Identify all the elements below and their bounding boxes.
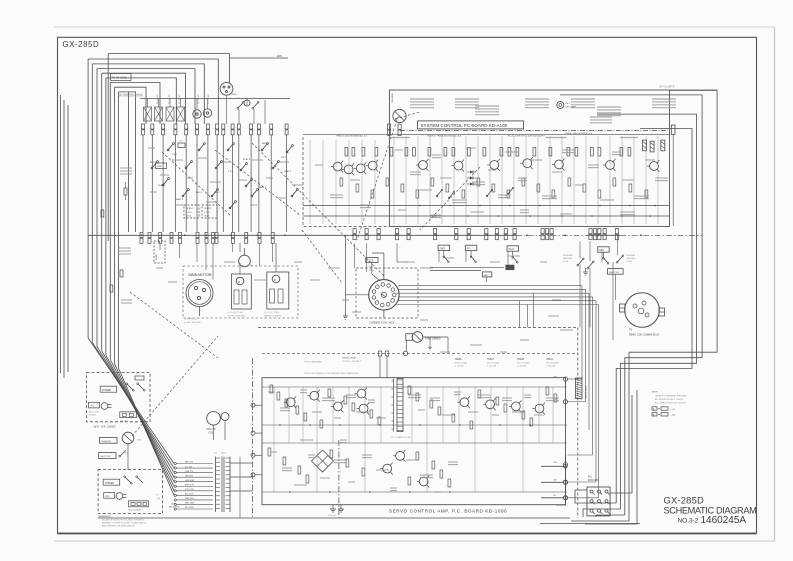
switch board S61 (436, 189, 443, 197)
label matrix value (172, 159, 183, 161)
svg-text:SHUT OFF: SHUT OFF (609, 272, 620, 274)
wire J3 lead (397, 304, 599, 306)
wire board pin drop c (397, 243, 408, 262)
resistor board lower R47 (598, 190, 601, 198)
connector pin pair top (257, 124, 260, 135)
wire board vertical (597, 136, 599, 224)
label signal conditions (475, 106, 499, 115)
label component value (562, 150, 575, 153)
transistor TR601 (342, 163, 355, 175)
label motor leads (184, 319, 201, 325)
svg-text:TAKEUP LPM 2850: TAKEUP LPM 2850 (264, 314, 282, 317)
svg-text:2-12.5: 2-12.5 (186, 212, 193, 214)
wire bus B (88, 59, 218, 124)
connector pin pair (485, 229, 488, 240)
oil damper unit 2 (267, 272, 289, 309)
label servo value (418, 409, 425, 411)
switch SW6b (251, 98, 259, 109)
wire matrix-left vertical (374, 140, 376, 224)
resistor board lower R48 (613, 178, 616, 186)
wire mech drop 7 (259, 243, 261, 266)
wire board vertical (453, 136, 455, 224)
svg-text:TR606, GIE-2SC945(K) 4-5: TR606, GIE-2SC945(K) 4-5 (565, 133, 593, 135)
svg-text:RED 12V: RED 12V (185, 462, 194, 464)
system control board left dash boundary (303, 137, 389, 226)
label P400 (369, 267, 374, 272)
connector pin pair (513, 229, 516, 240)
capacitor CN16 (239, 248, 254, 267)
wire board vertical (465, 136, 467, 224)
switch lever PLAY (512, 251, 518, 263)
wire servo vertical (426, 387, 428, 492)
svg-text:POLE: POLE (563, 261, 569, 263)
junction dot servo (279, 424, 281, 426)
svg-text:PLUNGER: PLUNGER (169, 94, 171, 104)
wire stop drop (372, 262, 380, 281)
solenoid plunger 1 (144, 107, 152, 121)
resistor servo R201 (277, 392, 280, 400)
connector P11 body (587, 487, 610, 516)
connector pad servo left (251, 473, 262, 477)
svg-text:TR604: TR604 (546, 359, 554, 361)
ground tape speed (428, 344, 432, 350)
label switch REV-2 (214, 192, 221, 194)
wire servo vertical (458, 387, 460, 443)
label component value (575, 184, 583, 186)
dashed link tension (132, 336, 218, 436)
label servo value (334, 460, 347, 463)
connector pin pair (365, 229, 368, 240)
junction dot bus (395, 234, 397, 236)
wire board vertical (525, 136, 527, 224)
wire left edge 1 (60, 95, 62, 373)
resistor board lower R34 (401, 184, 404, 192)
label servo value (308, 455, 315, 458)
junction dot bus (141, 234, 143, 236)
wire sensing to servo 3 (605, 262, 613, 352)
connector pin pair (396, 229, 399, 240)
system control board outline (389, 90, 669, 226)
switch S12 (261, 143, 268, 151)
wire left edge 3 (67, 105, 69, 372)
label AC 1 (89, 402, 100, 408)
svg-text:REV-2: REV-2 (214, 192, 221, 194)
label matrix value (280, 161, 289, 163)
oil damper unit 1 (232, 274, 252, 309)
label matrix value (160, 174, 169, 176)
label volt selector (169, 504, 180, 509)
transistor TR203 (355, 388, 368, 400)
label component value (620, 212, 635, 215)
switch tape speed (406, 332, 423, 343)
resistor board R6 (405, 148, 408, 157)
svg-text:TENSION: TENSION (101, 441, 111, 443)
connector pin pair top (216, 124, 219, 135)
label servo value (282, 468, 292, 471)
svg-text:or 2SC568: or 2SC568 (487, 365, 496, 368)
wire tension drop (124, 444, 128, 470)
wire switch row link 1 (430, 267, 504, 270)
label left bus values (120, 168, 132, 174)
resistor board lower R40 (492, 184, 495, 192)
svg-text:PLUNGER: PLUNGER (146, 94, 148, 104)
junction dot bus (206, 234, 208, 236)
wire matrix vertical (258, 135, 260, 232)
label matrix value (224, 161, 231, 163)
wire board vertical (585, 136, 587, 224)
drawing title GX-285D top left (63, 40, 100, 49)
label component value (612, 152, 621, 155)
resistor servo R208 (352, 403, 355, 411)
title model GX-285D (664, 494, 705, 505)
connector pad servo left (251, 431, 262, 435)
svg-text:REV-3: REV-3 (262, 143, 269, 145)
connector pad servo left (251, 453, 262, 457)
junction dot board (629, 205, 631, 207)
resistor servo R202 (285, 399, 288, 407)
switch sensing 1 (577, 258, 584, 266)
label servo value (434, 491, 441, 493)
wire J3 bundle drop (598, 305, 600, 498)
label servo value (546, 398, 559, 401)
svg-text:GRY 80V: GRY 80V (185, 475, 194, 477)
label TR605 group (427, 135, 462, 138)
connector P11 pins (590, 490, 610, 514)
label servo value (442, 414, 455, 416)
connector pad tape speed (403, 340, 407, 355)
resistor board R2 (352, 148, 355, 157)
junction dot board (449, 205, 451, 207)
label left bus values 3 (121, 300, 132, 303)
resistor servo lower R300 (268, 448, 271, 456)
switch board S62 (448, 191, 455, 199)
resistor servo R221 (530, 418, 533, 426)
wire J3 lead (398, 288, 586, 290)
resistor board R17 (549, 148, 552, 157)
servo board top pins (379, 351, 389, 378)
stop switch box (366, 257, 378, 262)
label bus extra 3 (620, 137, 638, 139)
svg-text:VLT 72V: VLT 72V (185, 466, 193, 468)
label component value (530, 159, 542, 161)
switch board S63 (486, 189, 493, 197)
label fuse 1.2A (156, 495, 161, 500)
label pickup coil (207, 429, 217, 435)
svg-text:2-12.5: 2-12.5 (204, 212, 211, 214)
junction dot board2 (621, 215, 623, 217)
note symbol 2 (652, 413, 675, 417)
diode D603 (467, 182, 476, 185)
resistor servo R213 (430, 400, 433, 408)
svg-text:50/60Hz: 50/60Hz (89, 414, 96, 416)
label bus extra 2 (545, 137, 567, 139)
system control board banner (418, 121, 524, 129)
connector pin pair top (270, 124, 273, 135)
dashed link 7 (420, 167, 480, 230)
dashed link 3 (130, 292, 218, 358)
label switch T.S.2 (228, 171, 234, 173)
label RL-20 group (508, 136, 545, 138)
wire damper drops (240, 243, 276, 274)
connector P3 dummy plug (620, 293, 665, 328)
resistor servo R219 (504, 404, 507, 412)
wire servo vertical (411, 387, 413, 443)
transistor tension sensor (392, 93, 406, 123)
wire tap GRN 100V (174, 480, 213, 483)
connector pin pair (353, 229, 356, 240)
connector pin pair second (245, 233, 248, 244)
svg-text:M: M (274, 278, 276, 282)
resistor servo lower R307 (408, 477, 411, 485)
servo board title (389, 509, 507, 514)
resistor servo R222 (546, 387, 549, 395)
connector pin pair (455, 229, 458, 240)
wire bundle stub to board (568, 401, 586, 403)
wire matrix vertical (185, 135, 187, 232)
resistor board R20 (591, 148, 594, 157)
label plunger vertical (208, 94, 210, 104)
dashed link 2 (302, 230, 342, 283)
svg-text:100V: 100V (277, 55, 283, 58)
label signal conditions (652, 99, 676, 108)
wire tap GRY 80V (174, 475, 213, 478)
label AC 2 (104, 493, 115, 499)
capacitor left bus (124, 182, 127, 200)
wire matrix vertical (162, 135, 164, 232)
resistor servo lower R301 (283, 457, 286, 465)
resistor servo R223 (554, 394, 557, 402)
wire tap RED 12V (174, 462, 213, 465)
wire plunger header drops (148, 95, 248, 124)
svg-text:SW19: SW19 (369, 270, 374, 272)
svg-text:PLAY: PLAY (509, 248, 515, 251)
wire board vertical (405, 136, 407, 224)
wire bus I extra drop (128, 92, 130, 232)
connector pin pair (546, 229, 549, 240)
junction dot servo (529, 424, 531, 426)
switch S6 (198, 143, 205, 151)
wire matrix vertical (216, 135, 218, 232)
label component value (466, 147, 476, 149)
connector pad servo right 24V (554, 462, 568, 467)
svg-text:VOLT: VOLT (171, 504, 177, 506)
svg-text:REV: REV (599, 250, 604, 252)
junction dot bus (564, 234, 566, 236)
switch S4 (182, 189, 189, 197)
wire J3 lead (399, 296, 593, 298)
svg-text:TR601 & 604-2SC945(K)(L) 1-1: TR601 & 604-2SC945(K)(L) 1-1 (336, 136, 368, 138)
resistor hatched pair 1 (643, 140, 647, 151)
label P3 (629, 329, 659, 336)
label matrix value (198, 157, 207, 159)
svg-text:PLUNGER: PLUNGER (179, 94, 181, 104)
label DRY ALUMITE (659, 85, 675, 88)
svg-text:HHT-2: HHT-2 (221, 453, 228, 455)
label FWD box small (156, 163, 167, 169)
label damper 1 (228, 312, 246, 317)
label PC board KD-1097 (392, 436, 413, 439)
wire P11 feed 4 (575, 490, 616, 503)
wire bus H left drop (114, 87, 116, 364)
wire bus F (106, 78, 176, 124)
resistor hatched pair 3 (661, 140, 665, 151)
switch box RED (482, 272, 492, 277)
junction node 22V (564, 481, 568, 485)
svg-text:IN CASE OF MODEL WG GX-285D (: IN CASE OF MODEL WG GX-285D ( FOR WEST (102, 518, 145, 521)
svg-text:YCP 125V: YCP 125V (185, 489, 195, 491)
connector pin pair (541, 229, 544, 240)
connector pad servo right 5.4V (554, 399, 568, 404)
svg-text:1460245A: 1460245A (701, 515, 747, 526)
svg-text:TR203, TR204: TR203, TR204 (342, 358, 357, 360)
wire board vertical (645, 136, 647, 224)
svg-text:T.S.1: T.S.1 (172, 154, 178, 156)
svg-text:FOR AMP: FOR AMP (588, 479, 599, 482)
label TR606 (455, 359, 468, 368)
connector pin pair (434, 229, 437, 240)
plug P1 (101, 403, 111, 410)
resistor board R1 (345, 148, 348, 157)
wire board vertical (561, 136, 563, 224)
junction dot servo (309, 424, 311, 426)
label misc value (490, 261, 500, 263)
connector pin pair second (196, 233, 199, 244)
label TR201 TR205 (304, 372, 359, 375)
resistor servo R214 (438, 407, 441, 415)
svg-text:OUTLET: OUTLET (120, 420, 128, 422)
svg-text:GRE 72V: GRE 72V (185, 471, 194, 473)
wire bus F left drop (105, 78, 107, 355)
label component value (315, 164, 323, 166)
label component value (588, 165, 599, 168)
chassis boundary vertical 1 (252, 358, 254, 518)
svg-text:L1 SUPPLY L2: L1 SUPPLY L2 (184, 319, 198, 321)
wire bus D (97, 69, 195, 124)
label component value (505, 151, 519, 153)
motor cam circle 2 (203, 109, 211, 117)
svg-text:GX-285D: GX-285D (63, 40, 100, 49)
connector pin pair top (174, 124, 177, 135)
border frame (58, 37, 757, 533)
wire right bus 2 (560, 95, 702, 515)
switch box F.F. (465, 245, 477, 250)
label POWER 1 (100, 386, 117, 392)
servo section dashed boundary top (258, 327, 578, 329)
svg-text:...(2): ...(2) (671, 415, 675, 417)
resistor board R22 (620, 148, 623, 157)
wire bus F diagonal to transformer (106, 355, 174, 482)
transistor TR204 (357, 403, 370, 415)
transistor small top (244, 100, 250, 106)
junction dot board (419, 205, 421, 207)
wire J3 lead (399, 285, 583, 287)
note symbol 1 (652, 407, 675, 411)
connector pin pair second (271, 233, 274, 244)
label servo value (334, 417, 341, 419)
svg-text:2SC711 or 2SC568 *2: 2SC711 or 2SC568 *2 (342, 361, 363, 363)
svg-text:BRN 117V: BRN 117V (185, 484, 195, 486)
label servo value (524, 395, 531, 398)
resistor servo R218 (496, 397, 499, 405)
wire servo vertical (332, 387, 334, 443)
transformer T201 ladder (392, 379, 404, 432)
label servo value (468, 411, 478, 413)
resistor R4 2W 220 (111, 74, 132, 81)
wire servo vertical (538, 387, 540, 443)
connector pin pair second (159, 233, 162, 244)
AC outlet 2 (129, 501, 149, 507)
junction dot board (479, 205, 481, 207)
label matrix value (176, 204, 185, 206)
wire J3 lead (397, 292, 590, 294)
resistor board R21 (598, 148, 601, 157)
label matrix value (252, 159, 263, 161)
junction dot bus (526, 234, 528, 236)
label matrix value (186, 177, 193, 179)
label matrix value (206, 201, 217, 203)
label component value (542, 196, 557, 199)
switch SW6a (236, 98, 244, 109)
chassis bus line (88, 234, 516, 236)
svg-text:NOTE: NOTE (652, 392, 658, 394)
lamp NE-1 pilot (557, 102, 577, 109)
chassis bus dash-dot 1 (516, 234, 587, 236)
servo rail bottom (262, 491, 567, 493)
label component value (488, 169, 496, 171)
wire bus E (102, 73, 186, 124)
connector pin pair second (179, 233, 182, 244)
label servo value (534, 414, 544, 416)
svg-text:REMO. CON. DUMMY PLUG: REMO. CON. DUMMY PLUG (629, 334, 659, 336)
svg-text:DRY ALUMITE: DRY ALUMITE (659, 85, 675, 88)
dashed link 5 (215, 150, 300, 215)
label servo value (430, 398, 440, 401)
switch S9 (227, 143, 234, 151)
border frame bottom thick (58, 533, 757, 535)
wire J3 bundle drop (592, 297, 594, 455)
main motor label (189, 273, 212, 277)
junction dot servo2 (449, 491, 451, 493)
connector pin pair second (212, 233, 215, 244)
junction dot servo (459, 424, 461, 426)
wire bus G left drop (109, 83, 111, 360)
connector pin pair second (170, 233, 173, 244)
resistor board lower R45 (568, 178, 571, 186)
svg-text:TR201-2SC712(M)(K) or 2SC568(K: TR201-2SC712(M)(K) or 2SC568(K)(M) TR205… (304, 372, 359, 375)
wire bundle stub to board (568, 481, 597, 483)
switch box REV (598, 247, 610, 252)
connector pin pair top (206, 124, 209, 135)
wire tape speed (423, 337, 448, 353)
label head rotating (134, 180, 137, 208)
connector pin pair top (185, 124, 188, 135)
svg-text:REVERSE: REVERSE (563, 255, 573, 257)
connector pin pair (495, 229, 498, 240)
label TR601 group (336, 136, 368, 138)
wire tap PNK 230V (174, 498, 213, 501)
label SOL ROW (118, 94, 142, 96)
wire servo vertical (442, 387, 444, 443)
wire P11 feed 3 (583, 509, 621, 517)
wire tap BLK 220V (174, 494, 213, 497)
wire lead drop mid 3 (533, 293, 535, 328)
svg-text:SERVO CONTROL AMP. P.C. BO: SERVO CONTROL AMP. P.C. BOARD KD-1096 (389, 509, 507, 514)
label TR203 TR204 (342, 358, 363, 363)
label switch T.S.1 (172, 154, 178, 156)
label P11 (588, 477, 599, 483)
junction dot board (569, 205, 571, 207)
resistor servo R217 (478, 390, 481, 398)
